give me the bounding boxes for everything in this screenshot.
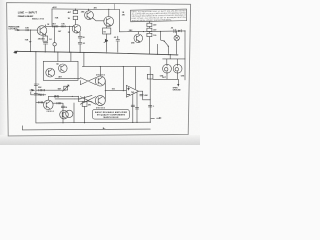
title LINE-INPUT — [18, 11, 38, 15]
speaker bridge wire — [163, 55, 185, 65]
wire to op-amp — [105, 90, 126, 92]
resistor R4 — [43, 36, 48, 41]
resistor R18 box — [82, 102, 87, 107]
switch S1 — [161, 32, 164, 41]
label speaker ground — [173, 88, 182, 92]
wire to Q8 top — [99, 67, 101, 77]
op-amp U1 — [126, 85, 138, 97]
dashed lead out — [151, 117, 160, 119]
label R4 value — [49, 39, 52, 41]
resistor R8 — [73, 16, 78, 19]
wire x185 tail — [184, 59, 186, 80]
resistor R7 — [73, 10, 78, 13]
transistor Q11 — [173, 64, 182, 73]
wire top right rail — [120, 30, 186, 33]
node A — [30, 30, 31, 31]
resistor R10 — [147, 23, 152, 26]
transistor Q12 — [44, 100, 54, 110]
wire feedback w1 — [36, 89, 66, 91]
resistor R13 — [39, 89, 45, 91]
wire bus2 end riser — [22, 126, 24, 130]
transistor Q6 — [59, 64, 68, 73]
transistor Q7 — [46, 68, 55, 77]
capacitor C6 — [174, 29, 176, 32]
resistor R12 — [147, 33, 152, 36]
wire — [44, 44, 46, 52]
border frame — [7, 3, 191, 136]
wire ground return x36 — [35, 52, 37, 123]
capacitor C3 — [78, 36, 82, 42]
capacitor C8 — [34, 94, 37, 95]
wire arrow terminal — [177, 79, 179, 84]
wire Q3-Q4 — [92, 18, 104, 21]
capacitor C11 — [135, 108, 138, 109]
transistor Q14 — [66, 110, 73, 117]
resistor R2 — [30, 30, 32, 51]
resistor R16 — [54, 96, 58, 98]
wire y96.4 — [48, 96, 78, 100]
wire stub x157.5 — [157, 44, 159, 54]
wire corner x185 — [184, 31, 186, 59]
resistor R14 — [39, 94, 43, 96]
node — [160, 31, 161, 32]
wire mid supply — [82, 65, 150, 67]
lamp I1 — [176, 31, 178, 35]
transistor Q9 — [95, 96, 105, 106]
resistor R3 label — [55, 17, 59, 19]
node — [100, 66, 101, 67]
wire lamp down — [176, 41, 178, 54]
wire crease x114.5 — [114, 3, 116, 9]
wire diagonal — [78, 95, 92, 101]
wire cross X upper — [75, 78, 96, 85]
resistor R5 — [53, 26, 58, 28]
rail junction dots — [30, 51, 177, 55]
wire stage coupling — [46, 25, 74, 27]
wire x75.3 — [74, 9, 76, 25]
transistor Q10 — [163, 64, 172, 73]
notes box — [130, 9, 186, 22]
wire Q1 emitter down — [45, 34, 47, 36]
label +40V — [52, 6, 57, 9]
node — [78, 96, 79, 97]
node — [150, 99, 151, 100]
capacitor C12 — [148, 105, 152, 107]
capacitor C13 — [61, 106, 64, 107]
transistor Q8 — [95, 76, 105, 86]
wire input — [15, 29, 38, 31]
wire x135.7 — [135, 67, 137, 89]
wire x123.3 — [122, 67, 124, 91]
transistor Q5 — [134, 34, 143, 43]
capacitor C9 — [140, 94, 143, 95]
resistor R9 box — [103, 28, 111, 34]
transistor Q3 — [85, 11, 94, 20]
wire collectors join — [104, 81, 106, 101]
bus junction dots — [62, 122, 150, 124]
capacitor C5 — [116, 36, 120, 52]
diode D1 — [105, 39, 108, 42]
wire x63 — [62, 103, 64, 123]
op-amp output wire — [139, 91, 151, 100]
wire y78.4 — [55, 77, 75, 79]
wire Q12 out — [53, 102, 63, 104]
wire corner x119.5 — [119, 10, 121, 32]
title line3 — [32, 18, 44, 20]
capacitor C1 — [43, 43, 47, 44]
wire from rail into box — [58, 52, 71, 61]
resistor R6 — [61, 26, 65, 28]
wire x84.6 — [84, 96, 86, 123]
wire w2 — [31, 92, 46, 95]
wire pin x137 — [136, 92, 138, 122]
wire output y79.3 — [153, 78, 178, 80]
wire Q4 top — [108, 9, 110, 16]
node — [72, 96, 73, 97]
capacitor C4 — [78, 42, 82, 52]
node — [123, 66, 124, 67]
capacitor C7 — [34, 84, 37, 85]
wire rail to mid — [83, 53, 85, 67]
wire pin x132.8 — [132, 94, 134, 122]
transistor Q1 — [37, 26, 47, 36]
bus label B+ — [103, 128, 106, 130]
subtitle — [18, 15, 34, 18]
wire Q2 emitter — [79, 32, 81, 36]
resistor R17 — [57, 102, 61, 104]
wire below speakers — [167, 73, 178, 79]
wire bias x69.6 — [69, 26, 71, 52]
node — [143, 31, 144, 32]
wire resistor chain — [148, 21, 150, 53]
label 45V — [94, 7, 98, 10]
wire bias x54.6 — [54, 26, 56, 42]
regulator box edge — [73, 103, 75, 123]
ground rail — [15, 51, 179, 55]
wire supply bus 1 — [36, 121, 150, 124]
capacitor C2 electrolytic — [53, 43, 56, 46]
capacitor C10 — [131, 105, 134, 106]
component K1 box — [147, 74, 153, 79]
wire vertical x52 — [51, 9, 53, 26]
ground arrow — [13, 51, 18, 54]
bias servo enclosure — [43, 61, 78, 80]
wire Q3 top — [88, 9, 90, 11]
amplifier note box — [92, 109, 129, 119]
wire x150 down — [149, 67, 151, 123]
wire Q1 collector up — [44, 25, 47, 27]
wire cross X lower — [75, 97, 96, 105]
diode D2 — [178, 30, 181, 32]
trimmer VR1 — [64, 86, 68, 90]
resistor R11 — [147, 28, 152, 31]
input label — [8, 26, 20, 30]
resistor R1 — [26, 29, 28, 31]
test point TP — [29, 41, 32, 43]
input arrow — [17, 29, 20, 31]
power rail top — [52, 8, 120, 11]
resistor R15 — [39, 102, 43, 104]
transistor Q13 — [60, 110, 69, 119]
transistor Q2 — [72, 25, 81, 34]
wire w3 — [36, 101, 44, 103]
transistor Q4 — [104, 17, 114, 27]
wire Q4 emitter — [106, 26, 108, 51]
arrow into node — [31, 89, 35, 92]
wire supply bus 2 — [23, 128, 151, 131]
wire y98.9 — [55, 98, 75, 100]
